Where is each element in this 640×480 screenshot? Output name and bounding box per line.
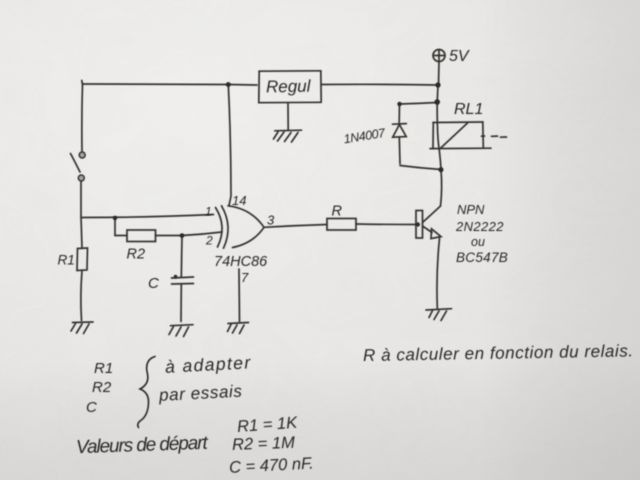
svg-text:1: 1 bbox=[205, 205, 212, 219]
svg-text:5V: 5V bbox=[449, 48, 470, 65]
svg-text:ou: ou bbox=[471, 235, 485, 249]
svg-text:3: 3 bbox=[267, 213, 275, 228]
svg-text:Regul: Regul bbox=[266, 77, 312, 97]
svg-text:R2 = 1M: R2 = 1M bbox=[232, 434, 296, 454]
svg-text:R: R bbox=[332, 204, 343, 220]
svg-text:7: 7 bbox=[241, 270, 249, 285]
svg-text:R1: R1 bbox=[58, 253, 75, 268]
svg-text:NPN: NPN bbox=[457, 202, 485, 217]
svg-text:BC547B: BC547B bbox=[456, 250, 508, 265]
svg-text:2: 2 bbox=[205, 234, 213, 248]
svg-text:C: C bbox=[86, 399, 97, 416]
svg-text:R2: R2 bbox=[92, 379, 112, 396]
svg-text:R1: R1 bbox=[94, 360, 113, 377]
svg-text:C: C bbox=[148, 275, 159, 292]
svg-text:R2: R2 bbox=[127, 247, 146, 263]
svg-text:RL1: RL1 bbox=[454, 101, 483, 118]
svg-text:74HC86: 74HC86 bbox=[214, 254, 268, 270]
svg-text:2N2222: 2N2222 bbox=[455, 219, 504, 234]
svg-text:14: 14 bbox=[232, 193, 246, 208]
